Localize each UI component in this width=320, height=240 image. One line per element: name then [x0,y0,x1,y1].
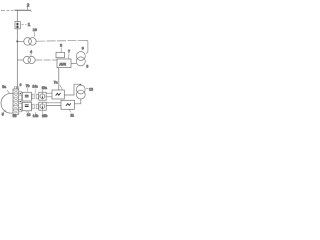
wire leader from label 5a [7,90,10,93]
svg-text:7a: 7a [54,81,58,85]
wire leader below lower field box [26,111,29,113]
generator 5 stator circle [1,93,13,113]
wire exciter to converter bottom pair [46,103,61,106]
transformer 4 [23,56,30,63]
svg-text:5b: 5b [13,114,17,118]
wire CT 4 tap [17,59,23,61]
wire rectifier 12 to transformer 13 top [64,84,79,95]
rotor winding bar [13,89,19,114]
label 13 [86,88,88,90]
svg-text:5a: 5a [2,85,6,89]
svg-text:7b: 7b [26,84,30,88]
wire AVR to transformer 9 [71,63,76,65]
field box upper 40 [22,92,31,101]
wire grid bus dashed continuation [1,9,14,11]
svg-text:AVR: AVR [59,62,66,66]
wire AVR down to rectifier 12 [58,68,60,90]
pilot machine box upper 15a [39,92,46,100]
transformer 10 [24,38,32,46]
rectifier box 12 [52,90,64,99]
wire right corner down to transformer 9 [86,40,88,53]
wire leader to label 11 [70,109,71,112]
svg-text:7: 7 [68,50,70,54]
converter box 11 [61,100,74,109]
node bus end tick [31,10,32,12]
wire grid bus 2 [15,9,32,11]
svg-text:10: 10 [33,28,37,32]
svg-text:11: 11 [70,114,74,118]
brush block upper left [32,94,34,99]
wire leader from label 7a [60,85,63,90]
svg-text:9: 9 [82,46,84,50]
brush block upper right [36,94,38,99]
setpoint box 8 [56,52,65,57]
rotor right column [19,92,22,112]
wire leader from label 8 [60,47,62,52]
node junction A [16,40,18,42]
brush block lower right [36,104,38,109]
rotor top cap [14,87,18,89]
wire transformer 4 to AVR dashed [35,59,57,61]
svg-text:13: 13 [89,88,93,92]
svg-text:8: 8 [60,44,62,48]
wire leader from 15b [42,110,44,114]
transformer 9 [76,52,85,61]
wire main vertical feeder upper [16,10,18,22]
wire leader from 14a [34,89,36,94]
wire leader from 15a [42,90,44,92]
wire leader from label 7 [68,53,70,58]
pilot machine box lower 15b [39,102,46,110]
breaker 1 [15,22,20,29]
field box lower 40 [22,102,31,111]
wire leader from label 10 [33,32,36,36]
svg-text:15a: 15a [42,86,48,90]
wire exciter to rectifier top pair [46,93,52,97]
wire leader from 7b [27,88,29,92]
svg-text:14a: 14a [32,85,38,89]
wire junction to transformer 10 [18,40,24,42]
svg-text:6: 6 [20,83,22,87]
wire main vertical feeder middle [16,29,18,89]
AVR box 7 [57,59,71,68]
wire leader from label 4 [30,53,32,56]
wire leader from 14b [34,112,36,115]
transformer 13 [76,85,85,94]
wire leader from label 5 [3,110,5,113]
svg-text:3: 3 [86,64,88,68]
svg-text:5: 5 [2,113,4,117]
wire leader from label 2 [27,7,29,10]
wire leader from label 5b [14,113,16,115]
wire transformer 10 to corner (dashed sensing line) [36,39,86,42]
wire transformer 13 bottom to box 11 [74,99,80,104]
wire leader from 16 [27,111,29,114]
brush block lower left [32,104,34,109]
wire leader to label 1 [22,24,27,26]
